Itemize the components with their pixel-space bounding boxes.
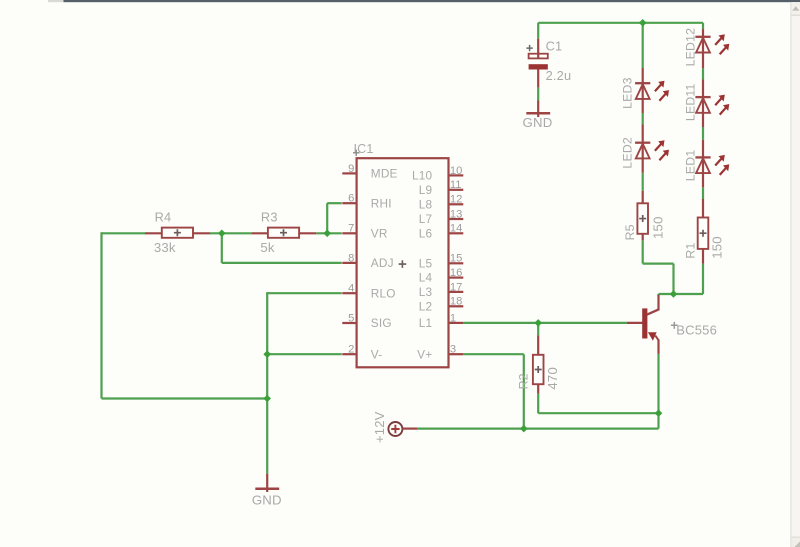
- svg-text:R4: R4: [155, 210, 172, 225]
- svg-text:SIG: SIG: [371, 316, 392, 330]
- svg-text:RHI: RHI: [371, 196, 392, 210]
- svg-text:10: 10: [450, 165, 462, 177]
- svg-text:1: 1: [450, 312, 456, 324]
- svg-text:L10: L10: [412, 169, 433, 183]
- svg-text:11: 11: [450, 179, 462, 191]
- svg-text:3: 3: [450, 344, 456, 356]
- svg-text:R1: R1: [684, 242, 698, 258]
- svg-text:7: 7: [348, 223, 354, 235]
- svg-text:12: 12: [450, 194, 462, 206]
- svg-text:R2: R2: [516, 373, 530, 389]
- svg-text:V-: V-: [371, 347, 383, 361]
- svg-text:LED11: LED11: [684, 83, 698, 121]
- svg-text:L9: L9: [419, 183, 433, 197]
- svg-text:17: 17: [450, 281, 462, 293]
- svg-text:13: 13: [450, 208, 462, 220]
- svg-text:8: 8: [348, 252, 354, 264]
- svg-text:GND: GND: [252, 493, 282, 508]
- svg-text:LED3: LED3: [620, 77, 634, 109]
- svg-text:R5: R5: [623, 224, 637, 240]
- svg-text:+12V: +12V: [372, 411, 387, 443]
- svg-text:6: 6: [348, 193, 354, 205]
- svg-text:L8: L8: [419, 197, 433, 211]
- svg-text:L1: L1: [419, 316, 433, 330]
- svg-text:5: 5: [348, 312, 354, 324]
- svg-text:150: 150: [709, 236, 724, 259]
- svg-text:L2: L2: [419, 299, 433, 313]
- svg-text:V+: V+: [417, 347, 432, 361]
- svg-text:2: 2: [348, 344, 354, 356]
- svg-text:BC556: BC556: [676, 323, 717, 338]
- svg-text:14: 14: [450, 223, 462, 235]
- svg-text:C1: C1: [546, 39, 563, 54]
- svg-text:L7: L7: [419, 212, 433, 226]
- svg-text:GND: GND: [523, 115, 553, 130]
- svg-text:L4: L4: [419, 271, 433, 285]
- svg-text:15: 15: [450, 253, 462, 265]
- svg-text:ADJ: ADJ: [371, 256, 394, 270]
- svg-text:2.2u: 2.2u: [546, 68, 572, 83]
- svg-text:5k: 5k: [260, 240, 275, 255]
- svg-text:33k: 33k: [154, 240, 176, 255]
- svg-text:L5: L5: [419, 256, 433, 270]
- svg-text:4: 4: [348, 283, 354, 295]
- svg-text:LED12: LED12: [684, 28, 698, 67]
- svg-text:470: 470: [545, 367, 560, 390]
- svg-text:L6: L6: [419, 226, 433, 240]
- svg-text:150: 150: [650, 216, 665, 239]
- svg-text:LED2: LED2: [620, 137, 634, 169]
- svg-text:R3: R3: [261, 210, 278, 225]
- svg-text:RLO: RLO: [371, 286, 396, 300]
- svg-text:9: 9: [348, 163, 354, 175]
- svg-text:LED1: LED1: [684, 150, 698, 182]
- svg-text:18: 18: [450, 296, 462, 308]
- svg-text:L3: L3: [419, 285, 433, 299]
- svg-text:VR: VR: [371, 226, 388, 240]
- svg-text:MDE: MDE: [371, 167, 398, 181]
- svg-text:16: 16: [450, 267, 462, 279]
